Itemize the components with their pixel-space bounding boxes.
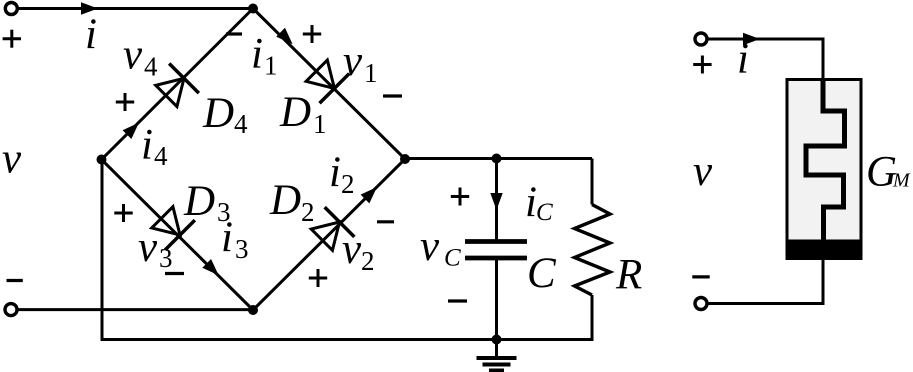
label + of v2 [309, 269, 327, 287]
svg-text:M: M [892, 170, 911, 192]
label + of vC [451, 188, 469, 206]
label + of v3 [114, 204, 132, 222]
current arrow i on top-left wire [81, 2, 98, 14]
wire top-left from input terminal to node T [17, 7, 253, 10]
resistor R zigzag [575, 205, 611, 296]
svg-text:C: C [536, 199, 553, 226]
wire resistor branch lower segment [591, 295, 594, 341]
memristor M1 body [787, 80, 861, 259]
current arrow i1 [276, 28, 297, 49]
svg-text:D: D [183, 178, 215, 225]
junction dot capacitor top [492, 154, 502, 164]
label minus of vC [448, 299, 467, 302]
label + of v4 [116, 93, 134, 111]
current arrow i4 [123, 118, 144, 139]
label minus of v4 [226, 32, 242, 35]
svg-text:C: C [444, 245, 461, 272]
current arrow i (memristor branch) [743, 33, 760, 45]
svg-text:1: 1 [313, 109, 327, 139]
label minus of v2 [377, 220, 394, 223]
svg-text:4: 4 [144, 52, 158, 82]
node B junction dot [248, 305, 258, 315]
wire bridge arm node T to node L [102, 9, 254, 160]
wire bottom-left from input terminal to node B [17, 308, 254, 311]
terminal memristor bottom [695, 298, 707, 310]
svg-text:2: 2 [341, 169, 355, 199]
svg-text:i: i [85, 11, 97, 58]
label minus bottom-left [7, 279, 23, 282]
wire bridge arm node L to node B [102, 160, 254, 311]
svg-text:R: R [615, 252, 642, 299]
svg-text:D: D [279, 89, 311, 136]
svg-text:3: 3 [159, 243, 173, 273]
wire capacitor branch lower segment [495, 260, 498, 340]
current arrow iC [490, 193, 502, 210]
terminal memristor top [695, 33, 707, 45]
wire resistor branch upper segment [591, 159, 594, 205]
svg-text:C: C [527, 250, 557, 297]
wire bottom rail [101, 338, 593, 341]
label + top-left [3, 30, 21, 48]
svg-text:v: v [343, 38, 363, 85]
svg-text:2: 2 [301, 197, 315, 227]
memristor M1 top wire [707, 38, 825, 304]
svg-text:D: D [202, 90, 234, 137]
label minus of v3 [165, 272, 184, 275]
node T junction dot [248, 4, 258, 14]
capacitor C plates [465, 242, 527, 259]
svg-text:v: v [342, 226, 362, 273]
label + of v1 [303, 25, 321, 43]
terminal top-left [5, 3, 17, 15]
diode D3 [147, 202, 194, 249]
svg-text:v: v [693, 148, 713, 195]
current arrow i3 [202, 259, 223, 280]
svg-text:3: 3 [235, 234, 249, 264]
ground symbol [477, 358, 517, 371]
label minus (memristor) [692, 275, 709, 278]
diode D2 [307, 207, 354, 254]
label minus of v1 [383, 94, 402, 97]
memristor M1 bottom wire [822, 258, 825, 304]
wire bridge arm node T to node R [253, 9, 405, 160]
svg-text:v: v [420, 223, 440, 270]
svg-text:1: 1 [264, 51, 278, 81]
wire ground stem [495, 340, 498, 357]
wire bridge arm node B to node R [253, 159, 405, 310]
wire left vertical drop from node L to bottom rail [101, 160, 104, 340]
svg-text:v: v [2, 136, 22, 183]
wire right rail from node R to resistor branch [405, 157, 592, 160]
node R junction dot [400, 154, 410, 164]
diode D1 [302, 56, 349, 103]
svg-text:4: 4 [154, 141, 168, 171]
terminal bottom-left [5, 304, 17, 316]
diode D4 [151, 63, 198, 110]
svg-text:i: i [141, 122, 153, 169]
svg-text:1: 1 [364, 58, 378, 88]
svg-text:v: v [123, 32, 143, 79]
svg-text:2: 2 [361, 246, 375, 276]
svg-text:i: i [329, 149, 341, 196]
svg-text:v: v [138, 224, 158, 271]
label + (memristor) [693, 56, 711, 74]
junction dot capacitor bottom / ground [492, 335, 502, 345]
svg-text:i: i [221, 214, 233, 261]
memristor M1 meander [806, 79, 845, 241]
svg-text:4: 4 [234, 109, 248, 139]
current arrow i2 [361, 183, 382, 204]
memristor M1 bottom electrode bar [786, 240, 863, 260]
wire capacitor branch upper segment [495, 159, 498, 240]
svg-text:D: D [269, 177, 301, 224]
svg-text:i: i [737, 36, 749, 83]
node L junction dot [97, 155, 107, 165]
svg-text:i: i [251, 31, 263, 78]
